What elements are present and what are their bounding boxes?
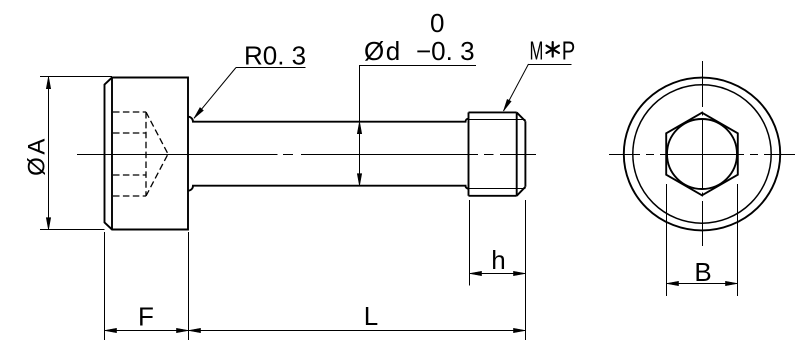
thread major diameter bottom edge	[469, 195, 517, 197]
hidden hex socket lower inner edge	[113, 174, 146, 176]
hex socket hexagon (end view)	[666, 113, 738, 196]
shaft top edge with R0.3 fillet	[188, 117, 469, 122]
end view horizontal centerline segment	[764, 154, 795, 156]
shaft bottom edge with fillet	[188, 186, 469, 191]
phiA bottom arrowhead	[46, 218, 50, 230]
phid dimension/leader line	[359, 66, 361, 186]
svg-text:B: B	[694, 257, 711, 287]
R0.3 leader underline	[236, 67, 306, 69]
svg-text:F: F	[138, 302, 154, 332]
phiA top arrowhead	[46, 77, 50, 89]
centerline segment (side view axis)	[500, 154, 536, 156]
hidden hex socket bottom edge	[113, 195, 146, 197]
label M*P asterisk	[547, 42, 559, 56]
end view horizontal centerline segment	[750, 154, 758, 156]
M*P leader underline	[529, 64, 572, 66]
L/h right extension line	[525, 200, 527, 340]
head chamfer circle (end view)	[633, 85, 771, 223]
F left arrowhead	[105, 328, 117, 332]
head chamfer edge line	[111, 78, 113, 230]
hidden hex socket upper inner edge	[113, 132, 146, 134]
L right arrowhead	[514, 328, 526, 332]
thread end face edge	[524, 121, 526, 187]
phid top arrowhead	[357, 122, 361, 134]
svg-text:Ød: Ød	[364, 36, 402, 66]
thread end chamfer bottom diagonal	[517, 187, 526, 196]
R0.3 leader diagonal	[194, 68, 236, 119]
B right extension line	[737, 184, 739, 296]
socket drill circle (end view)	[667, 119, 737, 189]
centerline segment (side view axis)	[283, 154, 293, 156]
F right arrowhead	[177, 328, 189, 332]
F left extension line	[104, 232, 106, 340]
end view vertical centerline segment	[702, 201, 704, 246]
phid bottom arrowhead	[357, 174, 361, 186]
M*P leader diagonal	[504, 64, 529, 111]
centerline segment (side view axis)	[484, 154, 494, 156]
hidden hex socket top edge	[113, 111, 146, 113]
end view horizontal centerline segment	[660, 154, 744, 156]
svg-text:ØA: ØA	[24, 136, 51, 176]
M*P leader arrowhead	[504, 99, 512, 111]
centerline segment (side view axis)	[77, 154, 278, 156]
svg-text:R0. 3: R0. 3	[244, 41, 306, 71]
end view horizontal centerline segment	[646, 154, 654, 156]
end view horizontal centerline segment	[609, 154, 640, 156]
phiA dimension line	[48, 77, 50, 230]
L left arrowhead	[189, 328, 201, 332]
svg-text:M: M	[530, 36, 544, 66]
hidden socket bottom face	[145, 112, 147, 196]
R0.3 leader arrowhead	[194, 108, 203, 119]
screw head outline (side view)	[105, 78, 189, 230]
svg-text:h: h	[491, 245, 505, 275]
centerline segment (side view axis)	[301, 154, 478, 156]
svg-text:−0. 3: −0. 3	[416, 36, 475, 66]
h right arrowhead	[514, 271, 526, 275]
B left extension line	[666, 184, 668, 296]
B left arrowhead	[667, 281, 679, 285]
F dimension line	[104, 330, 188, 332]
head outer circle (end view)	[624, 78, 780, 231]
hidden drill point upper flank	[146, 112, 168, 154]
thread minor diameter top line	[469, 119, 526, 121]
svg-text:0: 0	[430, 8, 444, 38]
B right arrowhead	[726, 281, 738, 285]
B dimension line	[666, 283, 738, 285]
hidden drill point lower flank	[146, 154, 168, 196]
thread end chamfer top diagonal	[517, 112, 526, 121]
thread end chamfer start line	[516, 112, 518, 195]
svg-text:L: L	[364, 301, 378, 331]
svg-text:P: P	[562, 36, 576, 65]
L dimension line	[188, 330, 525, 332]
end view vertical centerline segment	[702, 193, 704, 197]
phiA top extension line	[40, 76, 112, 78]
phiA bottom extension line	[40, 229, 105, 231]
thread section left shoulder edge	[468, 112, 470, 195]
h left extension line	[469, 200, 471, 286]
h dimension line	[470, 273, 526, 275]
F/L shared extension line	[188, 232, 190, 340]
thread minor diameter bottom line	[469, 188, 526, 190]
phid leader horizontal line	[359, 65, 476, 67]
end view vertical centerline segment	[702, 120, 704, 189]
thread major diameter top edge	[469, 111, 517, 113]
h left arrowhead	[470, 271, 482, 275]
end view vertical centerline segment	[702, 61, 704, 107]
end view vertical centerline segment	[702, 112, 704, 116]
